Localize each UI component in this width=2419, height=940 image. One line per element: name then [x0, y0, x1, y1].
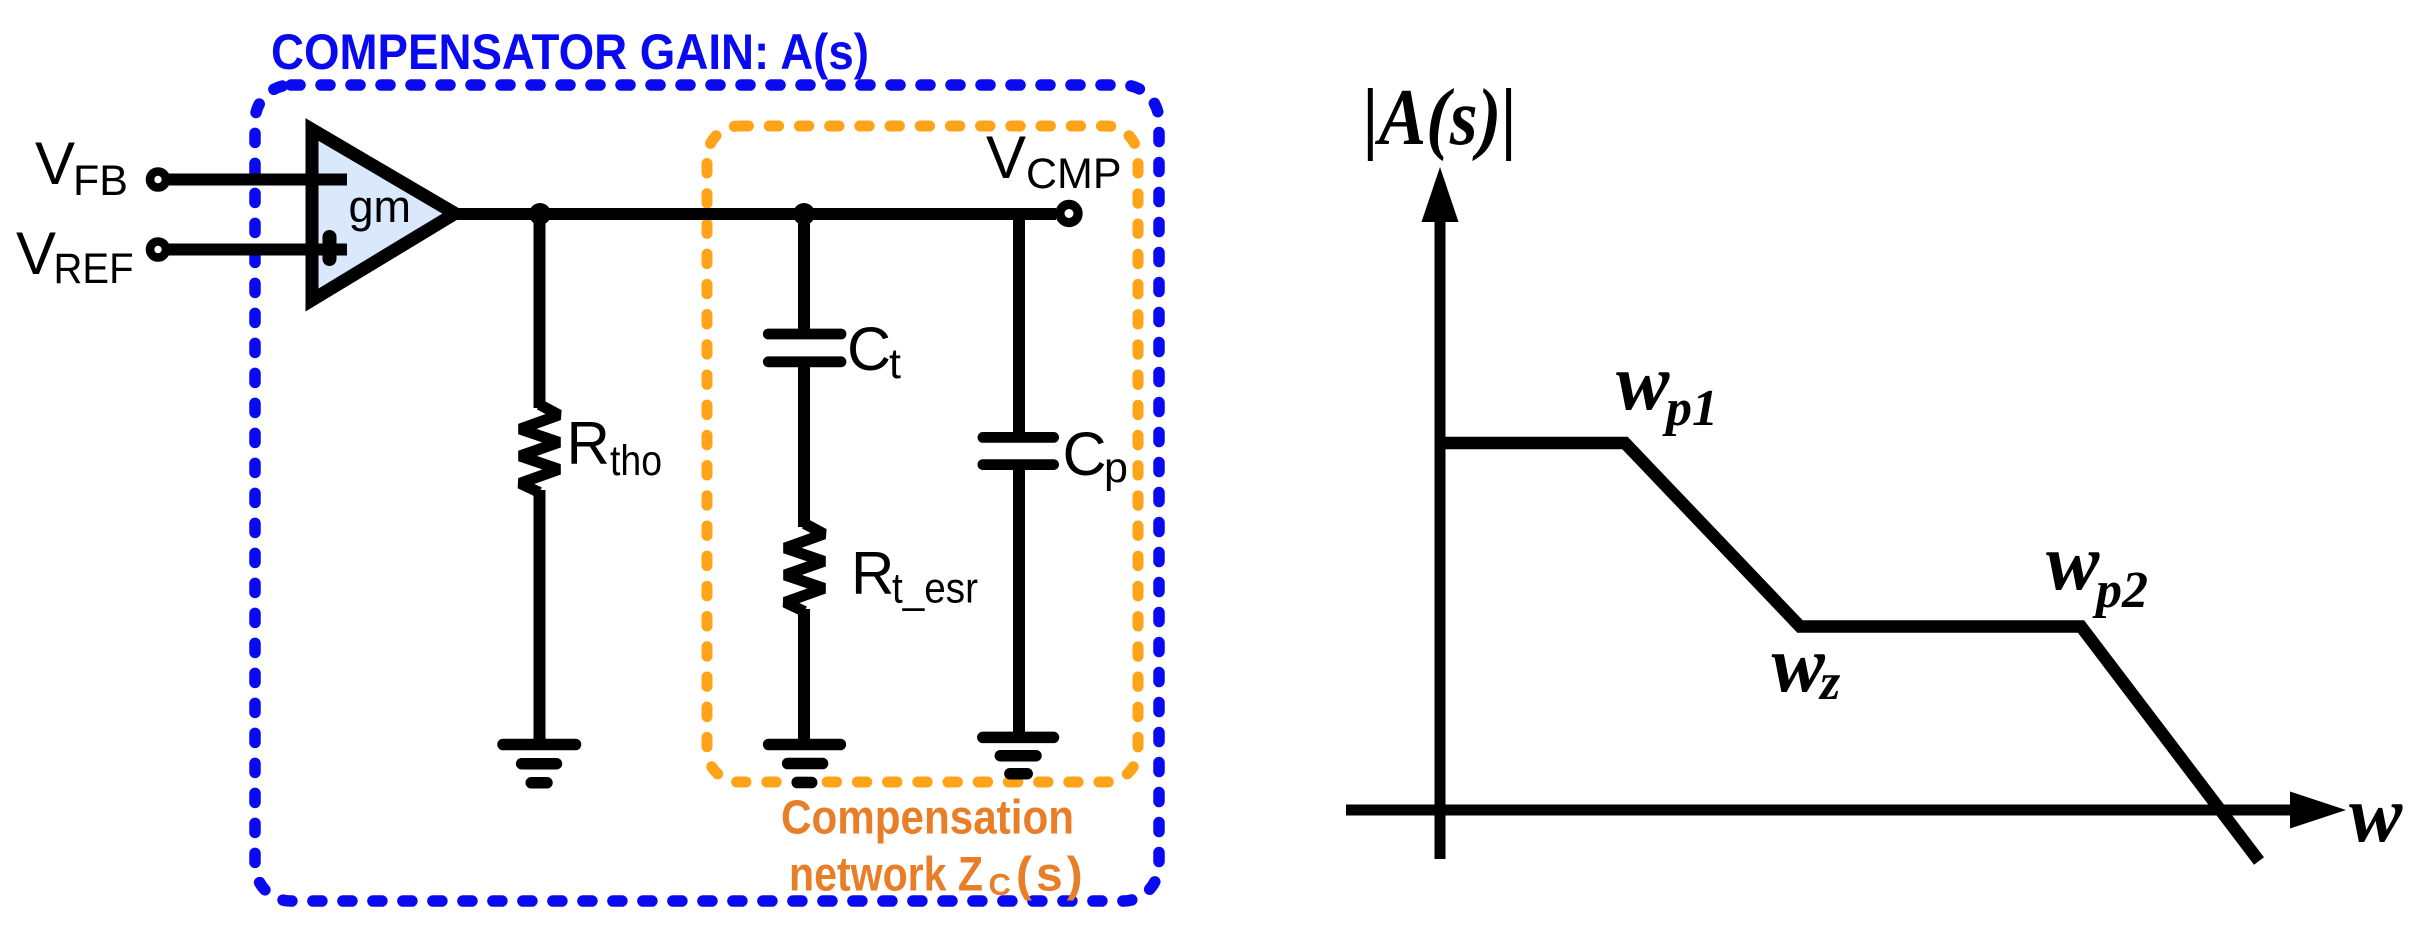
gain curve	[1440, 443, 2259, 861]
svg-text:p1: p1	[1662, 380, 1718, 437]
svg-text:V: V	[16, 220, 56, 287]
svg-text:V: V	[35, 130, 75, 197]
svg-text:(s): (s)	[1016, 849, 1087, 902]
svg-text:FB: FB	[73, 157, 128, 205]
svg-text:C: C	[847, 315, 891, 383]
op-amp U1 gm triangle	[312, 130, 455, 301]
plus sign on non-inverting input	[323, 237, 337, 259]
output wire to VCMP	[450, 208, 1056, 220]
wire Rt_esr to ground	[798, 609, 810, 744]
svg-text:|A(s)|: |A(s)|	[1363, 74, 1517, 162]
wire VFB to op-amp input	[163, 174, 347, 186]
svg-text:tho: tho	[610, 437, 662, 485]
ground (Rtho)	[503, 745, 576, 783]
wire VREF to op-amp input	[163, 244, 347, 256]
resistor Rt_esr zigzag	[785, 524, 824, 612]
blue dashed box COMPENSATOR GAIN A(s)	[255, 85, 1159, 901]
wire junction down to Ct	[798, 214, 810, 330]
ground (Ct branch)	[769, 745, 841, 783]
terminal VFB	[150, 172, 166, 188]
svg-text:z: z	[1818, 654, 1841, 711]
svg-text:w: w	[2046, 519, 2100, 607]
ground (Cp branch)	[983, 737, 1054, 773]
svg-text:t_esr: t_esr	[892, 565, 978, 613]
svg-text:Compensation: Compensation	[781, 792, 1074, 845]
terminal VREF	[150, 242, 166, 258]
svg-text:COMPENSATOR GAIN: A(s): COMPENSATOR GAIN: A(s)	[271, 24, 869, 80]
svg-text:R: R	[567, 410, 610, 477]
svg-text:p: p	[1104, 444, 1128, 492]
wire op-amp output down to Rtho	[534, 214, 546, 408]
svg-text:t: t	[889, 340, 901, 388]
svg-text:network Z: network Z	[789, 849, 983, 902]
y-axis	[1435, 220, 1446, 859]
wire Ct to Rt_esr	[798, 367, 810, 527]
junction node at Rtho	[529, 203, 551, 225]
svg-text:w: w	[2349, 771, 2403, 859]
svg-text:C: C	[1063, 420, 1107, 488]
svg-text:p2: p2	[2092, 562, 2148, 619]
capacitor Cp	[983, 437, 1054, 464]
svg-text:R: R	[851, 540, 894, 607]
wire Rtho to ground	[534, 490, 546, 744]
svg-text:C: C	[989, 867, 1011, 902]
terminal VCMP	[1060, 204, 1078, 222]
wire Cp to ground	[1013, 470, 1025, 737]
svg-text:w: w	[1772, 621, 1826, 709]
x-axis w	[1346, 805, 2292, 816]
wire output down to Cp	[1013, 214, 1025, 433]
svg-text:CMP: CMP	[1026, 150, 1122, 198]
orange dashed box compensation network	[707, 126, 1138, 782]
junction node at Ct	[793, 203, 815, 225]
resistor Rtho zigzag	[520, 405, 559, 493]
capacitor Ct	[768, 334, 841, 362]
svg-text:gm: gm	[349, 181, 412, 232]
svg-text:w: w	[1616, 339, 1670, 427]
svg-text:REF: REF	[54, 245, 134, 293]
label Compensation network ZC(s)	[781, 792, 1087, 903]
svg-text:V: V	[986, 124, 1026, 191]
